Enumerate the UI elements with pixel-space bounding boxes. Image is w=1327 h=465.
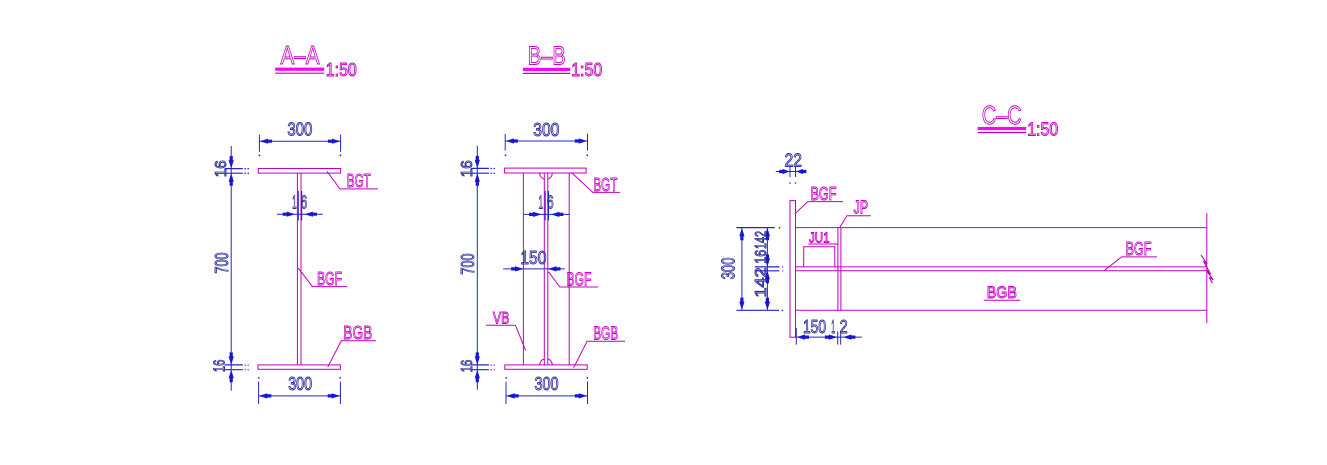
- A-A dimension 300 (top flange width): [258, 135, 260, 152]
- B-B dimension 300 (bottom flange width): [505, 382, 507, 404]
- svg-text:16: 16: [212, 360, 229, 373]
- A-A label BGT with leader: [327, 171, 378, 189]
- svg-text:300: 300: [533, 120, 559, 140]
- C-C break zigzag symbol: [1201, 255, 1213, 283]
- C-C label BGF (right) with leader: [1105, 257, 1157, 270]
- C-C label BGF (top left) with leader: [795, 202, 843, 215]
- svg-text:1:50: 1:50: [1027, 120, 1058, 140]
- B-B top flange plate BGT: [505, 168, 586, 173]
- A-A web plate BGF (double line): [296, 173, 298, 365]
- svg-text:150: 150: [803, 317, 826, 337]
- svg-text:16: 16: [213, 160, 230, 177]
- A-A top flange plate BGT: [258, 169, 340, 174]
- svg-text:BGF: BGF: [1126, 238, 1152, 259]
- svg-text:BGT: BGT: [347, 170, 371, 191]
- A-A dimension 300 (bottom flange width): [258, 382, 260, 404]
- svg-text:BGB: BGB: [343, 322, 372, 343]
- svg-text:16: 16: [459, 360, 476, 373]
- svg-text:22: 22: [785, 150, 802, 170]
- svg-text:150: 150: [520, 248, 546, 268]
- B-B web plate BGF (double line): [543, 173, 545, 365]
- C-C beam bottom line BGB: [796, 309, 1207, 311]
- C-C left dimension 300 (outer): [741, 228, 743, 311]
- svg-text:300: 300: [287, 120, 312, 140]
- C-C label JU1 with underline: [808, 243, 838, 245]
- A-A dimension 16 (web thickness): [297, 191, 299, 221]
- svg-text:BGF: BGF: [317, 268, 342, 289]
- C-C label BGB with underline: [984, 299, 1021, 301]
- A-A left dimension chain 16 / 700 / 16: [230, 146, 232, 391]
- C-C BGF flange (double line mid): [796, 266, 1207, 268]
- svg-text:JU1: JU1: [809, 230, 830, 246]
- svg-text:JP: JP: [854, 197, 869, 218]
- C-C label JP with leader: [840, 216, 871, 228]
- svg-text:1:50: 1:50: [326, 60, 357, 80]
- svg-text:B–B: B–B: [528, 41, 566, 71]
- C-C beam top flange line: [796, 227, 1207, 229]
- svg-text:A–A: A–A: [281, 40, 321, 70]
- B-B label BGF with leader: [549, 272, 598, 287]
- svg-text:16: 16: [459, 160, 476, 177]
- svg-text:16: 16: [753, 250, 770, 264]
- A-A label BGF with leader: [298, 268, 347, 287]
- svg-text:C–C: C–C: [982, 100, 1022, 130]
- B-B bottom flange plate BGB: [505, 365, 587, 369]
- C-C dimension 22 (end plate thickness): [789, 167, 791, 178]
- svg-text:1: 1: [831, 317, 835, 337]
- A-A label BGB with leader: [328, 341, 376, 367]
- B-B vertical stiffener VB (right edge line): [568, 173, 570, 365]
- C-C bottom dimension 150 and 12: [795, 328, 797, 345]
- svg-text:BGT: BGT: [593, 174, 617, 195]
- C-C right end break line: [1206, 213, 1208, 323]
- B-B dimension 300 (top flange width): [504, 134, 506, 151]
- svg-text:BGF: BGF: [811, 183, 837, 204]
- B-B weld fillet arcs at bottom of web: [540, 359, 545, 365]
- C-C left dimension chain 142/16/142 (inner): [766, 228, 768, 311]
- B-B label BGB with leader: [574, 341, 625, 368]
- svg-text:6: 6: [547, 193, 554, 213]
- svg-text:700: 700: [458, 254, 478, 275]
- C-C JP plate (double vertical line): [837, 228, 839, 311]
- B-B dimension 16 (web thickness): [544, 191, 546, 221]
- svg-text:300: 300: [719, 257, 739, 279]
- B-B left dimension chain 16 / 700 / 16: [476, 146, 478, 390]
- svg-text:BGF: BGF: [566, 268, 591, 289]
- svg-text:1: 1: [539, 193, 544, 213]
- svg-text:VB: VB: [493, 308, 510, 327]
- C-C end plate (22 thick): [790, 201, 796, 338]
- svg-text:300: 300: [535, 374, 559, 394]
- svg-text:6: 6: [301, 193, 308, 213]
- svg-text:BGB: BGB: [987, 283, 1017, 302]
- B-B dimension 150 (stiffener spacing): [503, 268, 564, 270]
- B-B weld fillet arcs at top of web: [540, 173, 545, 179]
- B-B label BGT with leader: [571, 172, 620, 192]
- svg-text:300: 300: [288, 374, 312, 394]
- B-B label VB with leader: [486, 324, 515, 326]
- svg-text:1: 1: [292, 193, 297, 213]
- C-C JU1 connection plate rectangle: [804, 247, 835, 267]
- svg-text:700: 700: [212, 253, 232, 274]
- svg-text:1:50: 1:50: [571, 60, 602, 80]
- svg-text:2: 2: [840, 317, 848, 337]
- A-A bottom flange plate BGB: [258, 365, 340, 369]
- svg-text:142: 142: [753, 231, 770, 249]
- B-B vertical stiffener VB (left edge line): [522, 173, 524, 365]
- svg-text:142: 142: [753, 268, 770, 298]
- svg-text:BGB: BGB: [593, 323, 618, 344]
